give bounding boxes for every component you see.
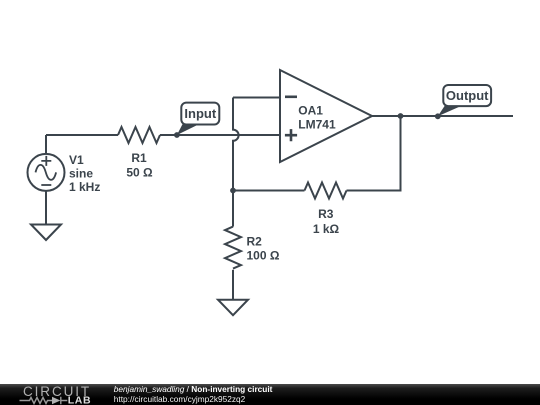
svg-text:R1: R1 — [131, 151, 147, 165]
label OA1 'OA1 LM741' — [298, 104, 336, 132]
label R2 '100 Ω' — [247, 235, 280, 263]
svg-text:LM741: LM741 — [298, 118, 336, 132]
svg-text:benjamin_swadling / Non-invert: benjamin_swadling / Non-inverting circui… — [114, 384, 273, 394]
node Input junction dot — [174, 132, 180, 138]
wire R1 to op-amp + input — [160, 134, 280, 136]
svg-text:Output: Output — [446, 88, 489, 103]
svg-text:sine: sine — [69, 167, 93, 181]
wire V1 bottom lead — [45, 191, 47, 225]
svg-text:100 Ω: 100 Ω — [247, 249, 280, 263]
svg-text:R3: R3 — [318, 207, 334, 221]
node output junction dot — [398, 113, 404, 119]
flag Output pointer — [438, 106, 462, 117]
ground GND1 (below V1) — [31, 225, 61, 241]
svg-text:1 kΩ: 1 kΩ — [313, 222, 340, 236]
wire vertical feedback net with crossover hop — [233, 98, 239, 191]
op-amp OA1 minus symbol — [285, 96, 297, 99]
wire R2 bottom lead — [232, 270, 234, 300]
flag Input pointer — [177, 124, 200, 135]
label R3 '1 kΩ' — [313, 207, 340, 236]
svg-text:V1: V1 — [69, 153, 84, 167]
flag Output box — [443, 85, 491, 106]
node feedback junction dot — [230, 188, 236, 194]
wire op-amp output — [372, 115, 513, 117]
voltage source V1 — [28, 154, 65, 191]
svg-text:http://circuitlab.com/cyjmp2k9: http://circuitlab.com/cyjmp2k952zq2 — [114, 394, 246, 404]
svg-text:OA1: OA1 — [298, 104, 323, 118]
ground GND2 (below R2) — [218, 300, 248, 316]
node Output flag anchor dot — [435, 113, 441, 119]
label R1 '50 Ω' — [126, 151, 153, 180]
op-amp OA1 body — [280, 70, 372, 162]
wire V1 to R1 — [46, 134, 118, 136]
wire R2 top lead — [232, 191, 234, 227]
wire feedback node to R3 — [233, 190, 305, 192]
svg-text:Input: Input — [184, 106, 216, 121]
wire R3 to output vertical — [347, 116, 401, 191]
resistor R3 — [305, 183, 347, 199]
svg-text:50 Ω: 50 Ω — [126, 166, 153, 180]
resistor R1 — [118, 127, 160, 143]
flag Input box — [181, 103, 219, 125]
svg-text:R2: R2 — [247, 235, 263, 249]
wire V1 top lead — [45, 135, 47, 154]
label V1 'V1 sine 1 kHz' — [69, 153, 100, 194]
svg-text:LAB: LAB — [68, 395, 91, 405]
svg-text:1 kHz: 1 kHz — [69, 180, 100, 194]
wire op-amp - input stub — [233, 97, 280, 99]
op-amp OA1 plus symbol — [285, 129, 297, 141]
CircuitLab logo resistor-diode glyph — [20, 397, 68, 405]
resistor R2 — [225, 227, 241, 269]
